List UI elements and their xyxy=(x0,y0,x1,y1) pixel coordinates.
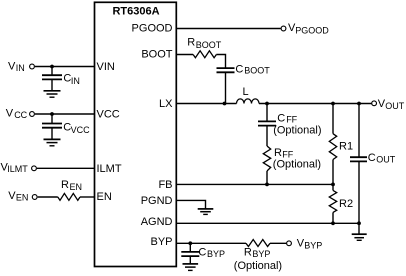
junction LX/CFF xyxy=(265,102,269,106)
svg-text:OUT: OUT xyxy=(376,154,396,164)
capacitor C_BOOT xyxy=(217,63,271,75)
node VEN terminal xyxy=(8,190,37,203)
svg-text:(Optional): (Optional) xyxy=(273,125,321,137)
wire VCC input xyxy=(35,113,95,115)
svg-text:BOOT: BOOT xyxy=(141,49,172,61)
pin label EN xyxy=(97,191,112,203)
wire RBOOT to CBOOT xyxy=(216,55,225,68)
svg-text:L: L xyxy=(243,86,249,98)
wire BOOT to RBOOT xyxy=(176,54,193,56)
svg-text:V: V xyxy=(6,107,14,119)
wire RFF to FB line xyxy=(266,171,268,184)
svg-text:R2: R2 xyxy=(339,198,353,210)
pin label PGND xyxy=(141,195,173,207)
svg-text:BYP: BYP xyxy=(252,249,270,259)
ground below C_IN xyxy=(44,91,61,97)
svg-text:PGND: PGND xyxy=(141,195,173,207)
wire VIN input xyxy=(35,66,95,68)
node VIN terminal xyxy=(8,60,34,73)
wire inductor to VOUT xyxy=(259,103,371,105)
svg-text:CC: CC xyxy=(14,110,27,120)
wire VEN to REN xyxy=(38,196,58,198)
svg-text:BOOT: BOOT xyxy=(244,66,270,76)
wire REN to EN pin xyxy=(80,196,95,198)
ground below C_BYP xyxy=(183,264,199,271)
wire RBYP to VBYP xyxy=(270,242,286,244)
svg-text:R1: R1 xyxy=(339,141,353,153)
node VCC terminal xyxy=(6,107,35,120)
svg-text:OUT: OUT xyxy=(385,101,405,111)
pin label PGOOD xyxy=(132,23,173,35)
pin label VCC xyxy=(97,109,120,121)
svg-text:V: V xyxy=(8,60,16,72)
wire CBOOT to LX line xyxy=(225,72,227,103)
svg-text:AGND: AGND xyxy=(141,216,173,228)
inductor L xyxy=(237,86,260,104)
junction FB/RFF xyxy=(265,183,269,187)
svg-text:BYP: BYP xyxy=(150,236,172,248)
svg-text:PGOOD: PGOOD xyxy=(132,23,173,35)
svg-text:ILMT: ILMT xyxy=(97,163,122,175)
pin label LX xyxy=(159,98,173,110)
svg-text:RT6306A: RT6306A xyxy=(112,6,159,18)
svg-text:ILMT: ILMT xyxy=(7,164,28,174)
ground AGND xyxy=(352,223,367,240)
svg-text:C: C xyxy=(235,63,243,75)
svg-text:VIN: VIN xyxy=(97,61,115,73)
svg-text:FB: FB xyxy=(158,179,172,191)
capacitor C_IN xyxy=(42,67,80,91)
pin label FB xyxy=(158,179,172,191)
svg-text:EN: EN xyxy=(16,192,29,202)
svg-text:(Optional): (Optional) xyxy=(273,159,321,171)
capacitor C_VCC xyxy=(42,114,90,139)
resistor R1 xyxy=(329,104,353,185)
svg-text:VCC: VCC xyxy=(71,125,91,135)
svg-text:VCC: VCC xyxy=(97,109,120,121)
wire LX to inductor xyxy=(176,103,237,105)
pin label AGND xyxy=(141,216,173,228)
ground PGND xyxy=(198,209,214,215)
junction VIN/CIN xyxy=(50,65,54,69)
resistor R_BYP (optional) xyxy=(234,240,282,273)
pin label BYP xyxy=(150,236,172,248)
wire ILMT input xyxy=(37,167,95,169)
node VILMT terminal xyxy=(1,162,37,175)
wire PGOOD output xyxy=(176,28,281,30)
wire AGND line xyxy=(176,222,359,224)
capacitor C_BYP xyxy=(181,243,225,264)
resistor R_FF (optional) xyxy=(263,146,321,171)
svg-text:R: R xyxy=(61,179,69,191)
junction AGND/R2 xyxy=(331,221,335,225)
junction FB/R1/R2 xyxy=(331,183,335,187)
wire BYP to RBYP xyxy=(176,242,246,244)
svg-text:C: C xyxy=(368,152,376,164)
svg-text:C: C xyxy=(277,113,285,125)
junction VCC/CVCC xyxy=(50,112,54,116)
svg-text:(Optional): (Optional) xyxy=(234,260,282,272)
svg-text:C: C xyxy=(198,246,206,258)
pin label VIN xyxy=(97,61,115,73)
wire FB line xyxy=(176,183,333,185)
svg-text:LX: LX xyxy=(159,98,173,110)
IC U1 RT6306A body xyxy=(95,2,177,266)
resistor R_EN xyxy=(58,179,82,201)
svg-text:R: R xyxy=(187,37,195,49)
svg-text:R: R xyxy=(274,147,282,159)
capacitor C_OUT xyxy=(350,104,396,224)
svg-text:FF: FF xyxy=(286,114,297,124)
svg-text:IN: IN xyxy=(16,63,25,73)
svg-text:EN: EN xyxy=(97,191,112,203)
junction AGND/COUT xyxy=(357,221,361,225)
svg-text:R: R xyxy=(244,246,252,258)
svg-text:EN: EN xyxy=(70,182,83,192)
resistor R2 xyxy=(329,184,353,223)
node VOUT terminal xyxy=(372,98,405,111)
svg-text:BYP: BYP xyxy=(304,240,322,250)
svg-text:BOOT: BOOT xyxy=(196,40,222,50)
wire PGND xyxy=(176,200,206,208)
pin label BOOT xyxy=(141,49,172,61)
junction BYP/CBYP xyxy=(188,241,192,245)
ground below C_VCC xyxy=(44,139,61,145)
junction VOUT/COUT xyxy=(357,102,361,106)
resistor R_BOOT xyxy=(187,37,222,58)
node VBYP terminal xyxy=(287,238,323,251)
svg-text:PGOOD: PGOOD xyxy=(295,25,329,35)
pin label ILMT xyxy=(97,163,122,175)
svg-text:IN: IN xyxy=(71,76,80,86)
capacitor C_FF (optional) xyxy=(258,104,321,147)
junction LX/CBOOT xyxy=(223,102,227,106)
node VPGOOD terminal xyxy=(281,22,329,35)
junction VOUT/R1 xyxy=(331,102,335,106)
svg-text:BYP: BYP xyxy=(207,249,225,259)
